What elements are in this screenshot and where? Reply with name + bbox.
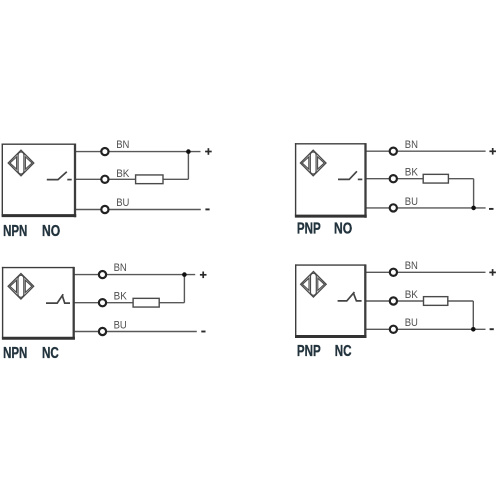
svg-text:BU: BU: [116, 197, 129, 209]
svg-text:BU: BU: [405, 317, 418, 329]
svg-text:NC: NC: [335, 343, 352, 360]
svg-text:BN: BN: [405, 260, 418, 272]
svg-text:BN: BN: [114, 262, 127, 274]
svg-text:BK: BK: [405, 167, 419, 179]
svg-text:BK: BK: [114, 291, 128, 303]
svg-text:NO: NO: [42, 223, 60, 240]
svg-text:BU: BU: [405, 196, 418, 208]
svg-text:NPN: NPN: [3, 223, 27, 240]
svg-text:BN: BN: [116, 139, 129, 151]
svg-text:BN: BN: [405, 139, 418, 151]
svg-text:NO: NO: [334, 221, 352, 238]
svg-text:NPN: NPN: [3, 345, 27, 362]
svg-text:BK: BK: [116, 168, 130, 180]
svg-text:PNP: PNP: [297, 343, 321, 360]
svg-text:PNP: PNP: [297, 221, 321, 238]
svg-text:NC: NC: [42, 345, 59, 362]
svg-text:BU: BU: [114, 319, 127, 331]
svg-text:BK: BK: [405, 289, 419, 301]
